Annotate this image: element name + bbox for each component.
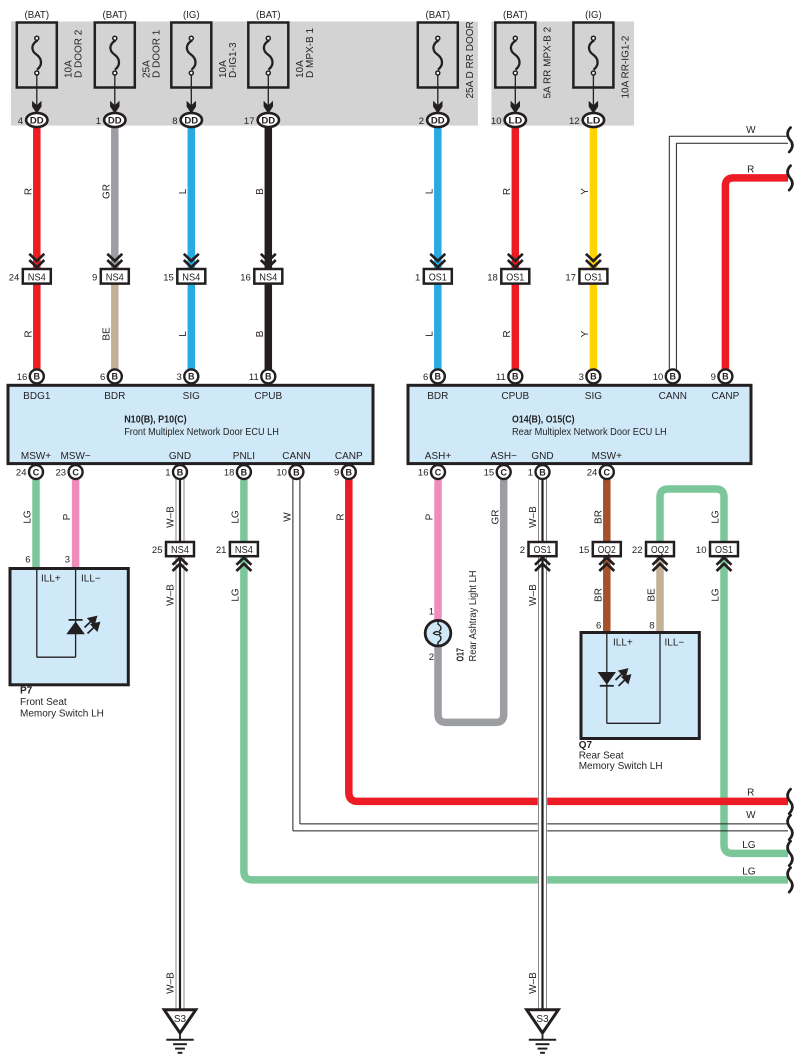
- svg-text:BDR: BDR: [427, 391, 448, 402]
- svg-text:W–B: W–B: [528, 584, 539, 606]
- svg-text:Front Seat: Front Seat: [20, 697, 67, 708]
- svg-text:5A RR MPX-B 2: 5A RR MPX-B 2: [543, 26, 554, 98]
- svg-text:S3: S3: [536, 1014, 549, 1025]
- svg-text:1: 1: [528, 468, 533, 479]
- svg-text:Rear Seat: Rear Seat: [579, 751, 624, 762]
- svg-text:OQ2: OQ2: [651, 544, 669, 556]
- svg-text:C: C: [435, 467, 442, 477]
- svg-text:LG: LG: [711, 588, 722, 602]
- svg-text:W: W: [746, 125, 756, 136]
- svg-text:O17: O17: [456, 648, 467, 662]
- svg-text:Rear Multiplex Network Door EC: Rear Multiplex Network Door ECU LH: [512, 427, 667, 438]
- svg-text:PNLI: PNLI: [233, 451, 255, 462]
- svg-text:R: R: [23, 188, 34, 195]
- svg-text:10A RR-IG1-2: 10A RR-IG1-2: [621, 35, 632, 98]
- svg-text:SIG: SIG: [585, 391, 602, 402]
- svg-text:B: B: [293, 467, 300, 477]
- svg-text:8: 8: [649, 620, 654, 631]
- svg-text:OS1: OS1: [584, 271, 602, 283]
- svg-text:LG: LG: [231, 510, 242, 524]
- svg-text:D DOOR 1: D DOOR 1: [152, 29, 163, 78]
- svg-text:9: 9: [711, 372, 716, 383]
- svg-text:24: 24: [16, 468, 27, 479]
- svg-text:NS4: NS4: [28, 271, 46, 283]
- svg-text:(BAT): (BAT): [503, 9, 528, 21]
- svg-text:16: 16: [418, 468, 429, 479]
- svg-text:B: B: [590, 372, 597, 382]
- svg-text:W–B: W–B: [166, 506, 177, 528]
- svg-text:N10(B), P10(C): N10(B), P10(C): [124, 415, 187, 426]
- svg-text:2: 2: [419, 116, 424, 127]
- svg-text:MSW+: MSW+: [21, 451, 51, 462]
- svg-text:LD: LD: [508, 116, 522, 127]
- svg-text:9: 9: [334, 468, 339, 479]
- svg-text:B: B: [265, 372, 272, 382]
- svg-text:CPUB: CPUB: [254, 391, 282, 402]
- svg-text:BDR: BDR: [104, 391, 125, 402]
- svg-text:NS4: NS4: [259, 271, 277, 283]
- svg-text:B: B: [255, 188, 266, 195]
- svg-text:6: 6: [423, 372, 428, 383]
- svg-text:Memory Switch LH: Memory Switch LH: [20, 709, 104, 720]
- svg-text:BE: BE: [647, 588, 658, 602]
- svg-text:GND: GND: [531, 451, 553, 462]
- svg-text:CANN: CANN: [659, 391, 687, 402]
- svg-text:D MPX-B 1: D MPX-B 1: [305, 28, 316, 78]
- svg-text:11: 11: [496, 372, 506, 383]
- svg-text:4: 4: [18, 116, 23, 127]
- svg-text:Rear Ashtray Light LH: Rear Ashtray Light LH: [468, 571, 479, 662]
- svg-text:ILL+: ILL+: [613, 637, 633, 648]
- svg-text:R: R: [747, 787, 754, 798]
- svg-text:B: B: [255, 330, 266, 337]
- svg-text:1: 1: [96, 116, 101, 127]
- svg-text:1: 1: [415, 273, 420, 284]
- svg-text:L: L: [424, 188, 435, 194]
- svg-text:BR: BR: [593, 588, 604, 602]
- svg-text:OQ2: OQ2: [598, 544, 616, 556]
- svg-text:BDG1: BDG1: [23, 391, 51, 402]
- svg-text:15: 15: [579, 545, 590, 556]
- svg-text:21: 21: [216, 545, 227, 556]
- svg-text:(IG): (IG): [585, 9, 602, 21]
- svg-text:Y: Y: [580, 330, 591, 337]
- svg-text:16: 16: [240, 273, 251, 284]
- svg-text:DD: DD: [261, 116, 275, 127]
- svg-text:NS4: NS4: [106, 271, 124, 283]
- svg-text:GR: GR: [490, 510, 501, 525]
- svg-text:CANN: CANN: [282, 451, 310, 462]
- svg-text:GND: GND: [169, 451, 191, 462]
- svg-text:L: L: [178, 331, 189, 337]
- svg-text:DD: DD: [108, 116, 122, 127]
- svg-text:C: C: [33, 467, 40, 477]
- svg-text:BR: BR: [593, 510, 604, 524]
- svg-text:2: 2: [429, 652, 434, 663]
- svg-text:ILL−: ILL−: [81, 573, 101, 584]
- svg-text:B: B: [722, 372, 729, 382]
- svg-text:1: 1: [165, 468, 170, 479]
- svg-text:LD: LD: [587, 116, 601, 127]
- svg-text:C: C: [500, 467, 507, 477]
- svg-text:3: 3: [579, 372, 584, 383]
- svg-text:B: B: [346, 467, 353, 477]
- svg-text:6: 6: [100, 372, 105, 383]
- svg-text:3: 3: [65, 554, 70, 565]
- svg-text:6: 6: [596, 620, 601, 631]
- svg-text:ASH+: ASH+: [425, 451, 452, 462]
- svg-text:R: R: [502, 330, 513, 337]
- svg-text:O14(B), O15(C): O14(B), O15(C): [512, 415, 575, 426]
- svg-text:17: 17: [565, 273, 576, 284]
- svg-text:10: 10: [653, 372, 664, 383]
- svg-text:GR: GR: [101, 184, 112, 199]
- svg-text:CPUB: CPUB: [501, 391, 529, 402]
- svg-text:D-IG1-3: D-IG1-3: [228, 42, 239, 78]
- svg-text:OS1: OS1: [534, 544, 552, 556]
- svg-text:B: B: [670, 372, 677, 382]
- svg-text:BE: BE: [101, 327, 112, 341]
- svg-text:LG: LG: [711, 510, 722, 524]
- svg-text:LG: LG: [742, 840, 756, 851]
- svg-text:OS1: OS1: [429, 271, 447, 283]
- svg-text:22: 22: [632, 545, 643, 556]
- svg-text:B: B: [512, 372, 519, 382]
- svg-text:P: P: [425, 513, 436, 520]
- svg-text:3: 3: [177, 372, 182, 383]
- svg-text:W–B: W–B: [166, 584, 177, 606]
- svg-text:B: B: [435, 372, 442, 382]
- svg-text:18: 18: [224, 468, 235, 479]
- svg-text:Front Multiplex Network Door E: Front Multiplex Network Door ECU LH: [124, 427, 279, 438]
- svg-text:17: 17: [244, 116, 255, 127]
- svg-text:1: 1: [429, 607, 434, 618]
- svg-text:MSW+: MSW+: [592, 451, 622, 462]
- svg-text:ASH−: ASH−: [490, 451, 517, 462]
- svg-text:10: 10: [276, 468, 287, 479]
- svg-text:2: 2: [520, 545, 525, 556]
- svg-text:10: 10: [696, 545, 707, 556]
- svg-text:Q7: Q7: [579, 740, 593, 751]
- svg-text:C: C: [72, 467, 79, 477]
- svg-text:25A D RR DOOR: 25A D RR DOOR: [465, 21, 476, 98]
- svg-text:15: 15: [484, 468, 495, 479]
- svg-text:(IG): (IG): [183, 9, 200, 21]
- svg-text:23: 23: [56, 468, 67, 479]
- svg-text:D DOOR 2: D DOOR 2: [74, 29, 85, 78]
- svg-text:P7: P7: [20, 686, 33, 697]
- svg-text:24: 24: [587, 468, 598, 479]
- svg-text:9: 9: [92, 273, 97, 284]
- svg-text:MSW−: MSW−: [60, 451, 90, 462]
- svg-text:ILL−: ILL−: [665, 637, 685, 648]
- svg-text:B: B: [188, 372, 195, 382]
- svg-text:R: R: [747, 165, 754, 176]
- svg-text:W: W: [746, 810, 756, 821]
- svg-text:DD: DD: [431, 116, 445, 127]
- svg-text:(BAT): (BAT): [25, 9, 50, 21]
- svg-text:DD: DD: [30, 116, 44, 127]
- svg-text:DD: DD: [184, 116, 198, 127]
- svg-text:12: 12: [569, 116, 580, 127]
- svg-text:16: 16: [17, 372, 28, 383]
- svg-text:L: L: [178, 188, 189, 194]
- svg-text:(BAT): (BAT): [256, 9, 281, 21]
- svg-text:NS4: NS4: [182, 271, 200, 283]
- svg-text:CANP: CANP: [712, 391, 740, 402]
- svg-text:(BAT): (BAT): [426, 9, 451, 21]
- svg-text:LG: LG: [23, 510, 34, 524]
- svg-text:Memory Switch LH: Memory Switch LH: [579, 761, 663, 772]
- svg-text:25: 25: [152, 545, 163, 556]
- svg-text:CANP: CANP: [335, 451, 363, 462]
- svg-text:8: 8: [172, 116, 177, 127]
- svg-text:6: 6: [25, 554, 30, 565]
- svg-text:R: R: [502, 188, 513, 195]
- svg-text:OS1: OS1: [715, 544, 733, 556]
- svg-text:NS4: NS4: [235, 544, 253, 556]
- svg-text:LG: LG: [231, 588, 242, 602]
- svg-text:B: B: [177, 467, 184, 477]
- svg-text:NS4: NS4: [171, 544, 189, 556]
- svg-text:24: 24: [9, 273, 20, 284]
- svg-text:LG: LG: [742, 867, 756, 878]
- svg-text:SIG: SIG: [183, 391, 200, 402]
- svg-text:C: C: [604, 467, 611, 477]
- svg-text:OS1: OS1: [506, 271, 524, 283]
- svg-text:R: R: [335, 513, 346, 520]
- svg-text:R: R: [23, 330, 34, 337]
- svg-text:Y: Y: [580, 188, 591, 195]
- svg-text:ILL+: ILL+: [41, 573, 61, 584]
- svg-text:10: 10: [491, 116, 502, 127]
- svg-text:18: 18: [487, 273, 498, 284]
- svg-text:15: 15: [163, 273, 174, 284]
- svg-text:(BAT): (BAT): [103, 9, 128, 21]
- svg-text:B: B: [112, 372, 119, 382]
- svg-text:L: L: [424, 331, 435, 337]
- svg-text:W–B: W–B: [528, 972, 539, 994]
- svg-text:S3: S3: [174, 1014, 187, 1025]
- svg-text:11: 11: [249, 372, 259, 383]
- svg-text:P: P: [62, 513, 73, 520]
- svg-text:B: B: [539, 467, 546, 477]
- svg-text:W: W: [282, 512, 293, 522]
- svg-text:B: B: [34, 372, 41, 382]
- svg-text:W–B: W–B: [166, 972, 177, 994]
- svg-text:B: B: [241, 467, 248, 477]
- svg-text:W–B: W–B: [528, 506, 539, 528]
